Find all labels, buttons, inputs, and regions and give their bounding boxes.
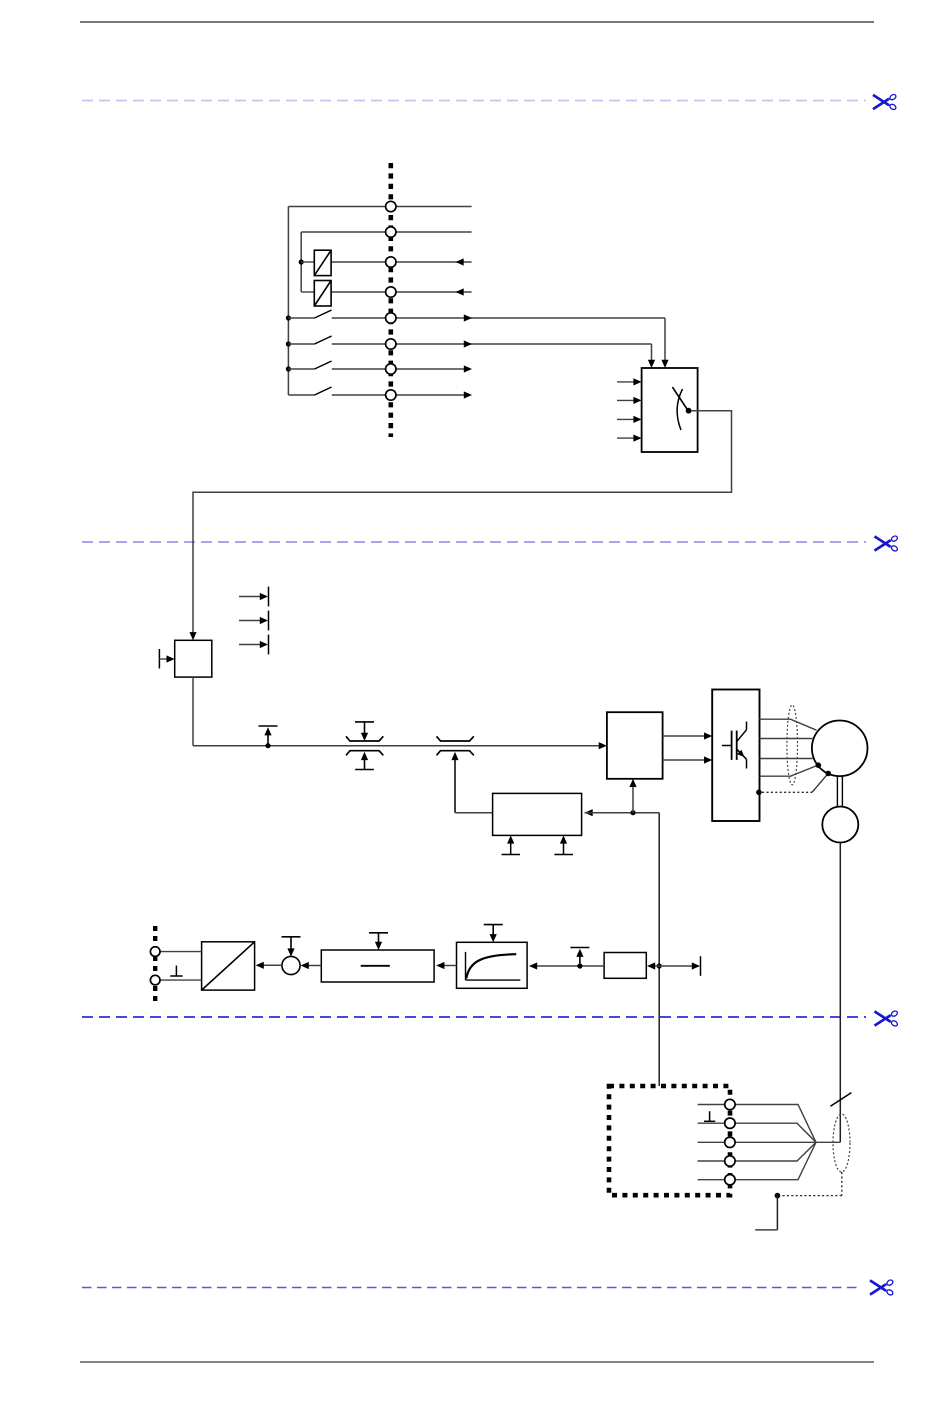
terminal X3.2 (725, 1118, 735, 1128)
arrow row4 (left) (456, 288, 464, 295)
signal break symbol 2 lower (437, 751, 474, 813)
aux output arrow 3 (239, 635, 269, 655)
motor shaft (837, 777, 842, 807)
filter curve (466, 952, 521, 980)
wire tacho down (839, 843, 841, 1143)
wire row3 stub (301, 261, 314, 263)
wire row4 (331, 291, 472, 293)
wire row4 stub (301, 291, 314, 293)
terminal strip X1 (dotted) (388, 163, 393, 437)
node shield at module (756, 790, 762, 796)
parameter above summer (282, 937, 301, 957)
terminal X2.1 (150, 947, 160, 957)
minus sign (361, 965, 390, 967)
terminal X3.1 (725, 1099, 735, 1109)
motor wire PE (760, 766, 817, 777)
cable break slash (830, 1093, 851, 1107)
wire row7 (332, 368, 464, 370)
ground ref 2 under limit box (554, 835, 573, 854)
node bus row7 (286, 366, 291, 371)
terminal X1.4 (386, 287, 396, 297)
node under control box (630, 810, 635, 815)
motor M1 (812, 721, 868, 777)
limit box U3 (493, 793, 582, 835)
terminal X2.2 (150, 975, 160, 985)
node main junction (265, 743, 270, 748)
wire row5 drop (664, 318, 666, 362)
scissors icon 2 (875, 535, 899, 552)
scale box U5 (604, 953, 646, 979)
ground ref 1 under limit box (502, 835, 521, 854)
switch S6 (288, 336, 331, 344)
filter box U6 (457, 942, 528, 988)
gate wire 1 (663, 732, 713, 739)
wire DA out 1 (160, 951, 202, 953)
wire bus left (287, 207, 289, 396)
node motor shield (825, 771, 831, 777)
arrow row6 into selector (648, 360, 655, 368)
node shield ground (775, 1193, 781, 1199)
cut line 1 (dashed) (82, 100, 866, 102)
wire row8 (332, 394, 464, 396)
shield ground lead (755, 1196, 777, 1230)
relay contact K1 (314, 250, 331, 275)
terminal X1.8 (386, 390, 396, 400)
shield wire (dotted) (762, 775, 827, 793)
parameter ref above node (570, 948, 589, 964)
node bus row6 (286, 341, 291, 346)
gate wire 2 (663, 756, 713, 763)
signal break symbol 1 lower (346, 751, 383, 770)
wire junction to limit box (585, 812, 660, 814)
encoder wire 5 (698, 1142, 816, 1179)
wire limit box to break2 (455, 812, 493, 814)
ground symbol in encoder box (704, 1111, 715, 1121)
motor wire U (760, 719, 817, 730)
arrow up into control box (629, 779, 636, 813)
wire row2 vertical (300, 232, 302, 292)
deadband box U7 (321, 950, 434, 982)
wire scale to filter (535, 965, 604, 967)
arrow into summer (301, 962, 309, 969)
wire filter to deadband (443, 965, 457, 967)
arrow into filter box (529, 962, 537, 969)
IGBT symbol Q1 (722, 722, 747, 769)
arrow into limit box (585, 809, 593, 816)
terminal X1.2 (386, 227, 396, 237)
terminal X1.7 (386, 364, 396, 374)
scissors icon 4 (870, 1279, 894, 1296)
cut line 2 (dashed) (82, 541, 866, 543)
selector input 1 (617, 378, 642, 385)
scissors icon 3 (875, 1010, 899, 1027)
node motor PE (816, 762, 822, 768)
parameter above filter box (484, 925, 503, 943)
aux output arrow 1 (239, 587, 269, 607)
wire feedback drop (658, 813, 660, 1086)
encoder option box (dotted) (609, 1086, 730, 1195)
wire row2 (301, 231, 471, 233)
switch S8 (288, 387, 331, 395)
node relay junction (299, 259, 304, 264)
relay contact K2 (314, 281, 331, 307)
selector box U1 (642, 368, 698, 452)
wire ramp to main line (192, 677, 194, 746)
wire row1 (288, 206, 471, 208)
selector input 2 (617, 397, 642, 404)
signal break symbol 1 upper (346, 722, 383, 741)
encoder wire 4 (698, 1142, 816, 1161)
arrow into DA box (256, 962, 264, 969)
motor wire V (760, 738, 813, 740)
arrow into control box (599, 742, 607, 749)
encoder wire 1 (698, 1105, 816, 1143)
switch S5 (288, 310, 331, 318)
aux output arrow 2 (239, 611, 269, 631)
wire summer to DA (262, 964, 282, 966)
terminal X1.1 (386, 201, 396, 211)
selector input 3 (617, 416, 642, 423)
node feedback param (577, 963, 582, 968)
scissors icon 1 (873, 93, 897, 110)
parameter ref symbol (259, 726, 278, 746)
header rule (80, 21, 874, 23)
encoder shield tail (dotted) (777, 1172, 841, 1196)
DA converter box (202, 942, 255, 990)
terminal X1.5 (386, 313, 396, 323)
ground symbol at DA (170, 966, 182, 977)
selector input 4 (617, 435, 642, 442)
cable shield ellipse (787, 705, 798, 785)
motor wire W (760, 758, 813, 760)
terminal X1.6 (386, 339, 396, 349)
arrow row6 (right) (464, 340, 472, 347)
control box U4 (607, 712, 663, 779)
wire row6 (332, 343, 652, 345)
power module box (712, 690, 759, 822)
encoder shield ellipse (833, 1114, 850, 1172)
terminal strip X2 (dotted) (153, 926, 157, 1002)
arrow row8 (right) (464, 391, 472, 398)
wire fan to cable (816, 1141, 840, 1143)
arrow into ramp box (189, 632, 196, 640)
encoder wire 3 (698, 1141, 816, 1143)
tachometer B1 (822, 807, 858, 843)
wire main line (193, 745, 600, 747)
feedback stub right (659, 956, 700, 976)
wire deadband to summer (307, 965, 321, 967)
arrow row3 (left) (456, 258, 464, 265)
wire DA out 2 (160, 979, 202, 981)
node bus row5 (286, 315, 291, 320)
input tick left (159, 649, 174, 669)
footer rule (80, 1361, 874, 1363)
cut line 4 (dashed) (82, 1287, 860, 1289)
wire row6 drop (651, 344, 653, 362)
arrow row5 into selector (661, 360, 668, 368)
summer circle (282, 956, 300, 974)
terminal X3.4 (725, 1156, 735, 1166)
switch S7 (288, 361, 331, 369)
wire row5 (332, 317, 665, 319)
arrow row7 (right) (464, 365, 472, 372)
arrow into scale box (647, 962, 659, 969)
wire row3 (331, 261, 472, 263)
arrow row5 (right) (464, 314, 472, 321)
encoder wire 2 (698, 1123, 816, 1142)
wire selector output (193, 411, 732, 634)
terminal X3.5 (725, 1175, 735, 1185)
terminal X3.3 (725, 1137, 735, 1147)
node feedback tap (657, 963, 662, 968)
cut line 3 (dashed) (82, 1016, 866, 1018)
parameter above deadband box (369, 933, 388, 950)
ramp box U2 (175, 640, 212, 677)
terminal X1.3 (386, 257, 396, 267)
signal break symbol 2 upper (437, 736, 474, 741)
selector switch symbol (672, 387, 691, 430)
arrow into deadband box (436, 962, 444, 969)
